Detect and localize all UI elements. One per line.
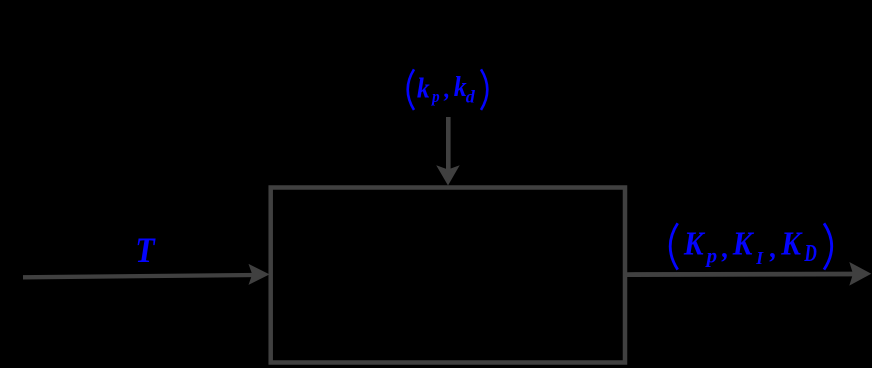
- svg-text:k: k: [417, 73, 430, 104]
- svg-text:,: ,: [443, 77, 450, 103]
- label: output gains (K_p, K_I, K_D): [670, 223, 832, 269]
- svg-text:p: p: [430, 89, 440, 107]
- block box (process/system block): [271, 188, 625, 363]
- label: top parameters (k_p, k_d): [408, 69, 488, 110]
- svg-text:,: ,: [721, 233, 729, 264]
- wire: top parameter input line: [446, 117, 451, 171]
- svg-text:p: p: [705, 243, 718, 267]
- arrowhead: output arrow: [849, 262, 871, 286]
- svg-text:K: K: [780, 225, 803, 262]
- wire: right output line: [627, 272, 857, 277]
- wire: left input line T: [23, 275, 258, 277]
- svg-text:d: d: [466, 86, 476, 106]
- svg-text:D: D: [804, 239, 817, 267]
- svg-text:K: K: [732, 225, 755, 262]
- arrowhead: top input into box: [436, 165, 460, 185]
- svg-text:,: ,: [769, 233, 777, 264]
- svg-text:K: K: [683, 225, 706, 262]
- big left paren of (k_p,k_d): [408, 69, 414, 110]
- big right paren of (k_p,k_d): [481, 69, 487, 110]
- arrowhead: left input into box: [249, 264, 270, 285]
- svg-text:T: T: [135, 231, 156, 270]
- big right paren of (K_p,K_I,K_D): [824, 223, 832, 269]
- svg-text:I: I: [755, 248, 764, 268]
- big left paren of (K_p,K_I,K_D): [670, 223, 678, 269]
